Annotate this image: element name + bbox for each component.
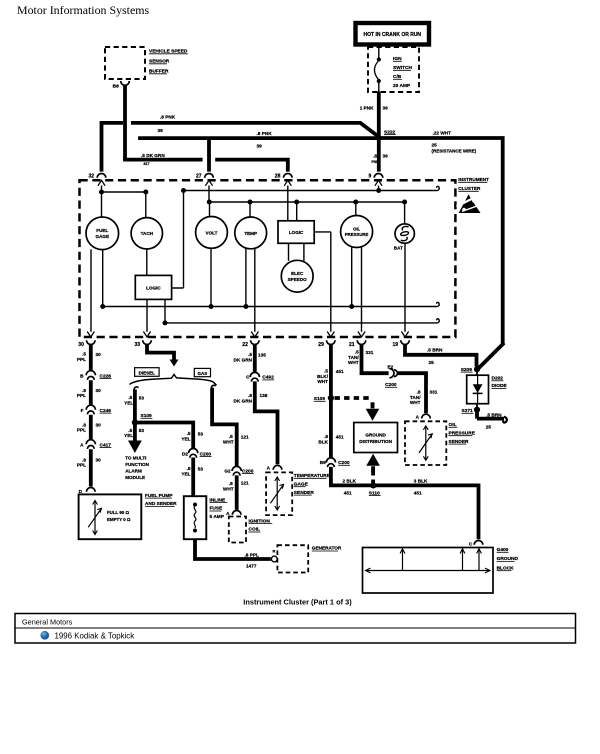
svg-text:39: 39 <box>158 128 164 133</box>
svg-text:PPL: PPL <box>77 463 86 468</box>
svg-text:25: 25 <box>429 360 435 365</box>
label .5 DK GRN 817 <box>141 153 165 166</box>
wire .8 TAN/WHT E2 to oil sender <box>398 371 426 413</box>
svg-text:BAT: BAT <box>394 245 403 250</box>
label .8 PNK 39 middle <box>257 131 273 149</box>
svg-text:WHT: WHT <box>223 486 234 491</box>
svg-text:.8: .8 <box>373 154 377 159</box>
pin 9 of instrument cluster <box>369 174 383 186</box>
wire node A to logic 2 right side <box>172 191 184 289</box>
label 2 BLK 451 <box>343 478 357 495</box>
connector C228 pin B <box>80 371 111 380</box>
pin D of fuel pump sender <box>79 488 95 494</box>
svg-text:1 PNK: 1 PNK <box>360 106 374 111</box>
label INLINE FUSE 5 AMP <box>210 497 228 520</box>
label .8 YEL 53 fuse <box>181 466 203 476</box>
svg-text:CLUSTER: CLUSTER <box>458 186 481 191</box>
resistor oil pressure sender element <box>419 426 432 461</box>
ground block G400 <box>363 548 494 594</box>
svg-text:F: F <box>81 408 84 413</box>
label TEMPERATURE GAGE SENDER <box>294 473 331 496</box>
svg-text:121: 121 <box>241 434 249 439</box>
svg-text:C: C <box>469 541 473 546</box>
svg-text:ALARM: ALARM <box>125 468 142 473</box>
svg-text:GAGE: GAGE <box>96 234 110 239</box>
wire .22 WHT resistance wire to right bus <box>379 136 504 368</box>
svg-text:32: 32 <box>89 174 95 180</box>
label .8 PPL 30 first <box>77 388 101 398</box>
connector C200 pin D2 <box>182 449 212 458</box>
wire fuel gage to node line C <box>102 250 104 307</box>
indicator BAT <box>394 224 415 250</box>
svg-text:TEMP: TEMP <box>244 231 257 236</box>
HOT IN CRANK OR RUN box <box>356 23 430 45</box>
splice S109 diesel <box>132 413 153 426</box>
svg-text:.8: .8 <box>187 466 191 471</box>
svg-text:3 BLK: 3 BLK <box>414 478 428 483</box>
svg-text:29: 29 <box>318 342 324 348</box>
svg-text:20 AMP: 20 AMP <box>393 83 411 89</box>
svg-text:53: 53 <box>139 395 145 400</box>
wire .8 WHT G2 to ignition coil <box>235 475 239 509</box>
svg-text:PPL: PPL <box>77 428 86 433</box>
wire pin 28 to logic 1 <box>287 186 289 221</box>
instrument cluster box <box>80 180 456 337</box>
svg-text:817: 817 <box>144 162 150 166</box>
label .5 YEL 53 lower <box>124 428 144 438</box>
svg-text:25: 25 <box>486 424 492 429</box>
pin 27 of instrument cluster <box>196 174 213 186</box>
inline fuse box <box>184 496 207 539</box>
svg-text:OIL: OIL <box>353 226 361 231</box>
GAS tag box <box>194 368 210 376</box>
svg-text:Instrument Cluster (Part 1 of: Instrument Cluster (Part 1 of 3) <box>243 598 352 607</box>
ignition coil dashed box <box>229 517 272 543</box>
application split brace <box>130 374 217 385</box>
svg-text:PRESSURE: PRESSURE <box>345 232 369 237</box>
svg-text:22: 22 <box>242 342 248 348</box>
svg-text:451: 451 <box>414 490 422 495</box>
svg-text:30: 30 <box>78 342 84 348</box>
svg-text:D2: D2 <box>182 451 188 456</box>
arrow to multi function alarm module <box>125 441 149 480</box>
generator dashed box <box>277 545 342 572</box>
wire crossbar to tach <box>145 192 147 218</box>
wire .5 BLK/WHT pin 29 to S109 <box>329 344 333 398</box>
svg-text:331: 331 <box>430 389 438 394</box>
svg-text:1477: 1477 <box>246 563 257 568</box>
wire .8 BLK S109 to B9 <box>329 398 333 457</box>
label .8 PPL 30 third <box>77 457 101 467</box>
connector C417 pin A <box>80 440 111 449</box>
wire pin 27 to volt gage <box>208 186 211 217</box>
dashed link S109 to ground distribution <box>335 396 372 400</box>
svg-text:138: 138 <box>260 393 268 398</box>
svg-text:YEL: YEL <box>181 436 190 441</box>
svg-text:LOGIC: LOGIC <box>146 286 161 291</box>
svg-text:DISTRIBUTION: DISTRIBUTION <box>359 439 392 444</box>
wire logic 2 to node line D <box>163 299 168 325</box>
wire fuel gage to pin 30 <box>90 249 92 331</box>
pin A of oil pressure sender <box>416 414 431 419</box>
terminal R at generator <box>271 549 277 562</box>
resistor fuel level sender element <box>88 501 101 535</box>
svg-text:.8: .8 <box>417 390 421 395</box>
wire .8 DK GRN C492 to temp sender <box>253 381 278 464</box>
caption Instrument Cluster Part 1 of 3 <box>243 598 352 607</box>
svg-text:.5: .5 <box>187 431 191 436</box>
svg-text:2 BLK: 2 BLK <box>343 478 357 483</box>
wire B8 vertical to DK GRN corner <box>123 85 127 159</box>
application table <box>15 614 576 644</box>
svg-text:TAN/: TAN/ <box>348 355 359 360</box>
svg-text:(RESISTANCE WIRE): (RESISTANCE WIRE) <box>432 148 477 153</box>
label .8 BLK 451 <box>318 434 344 444</box>
svg-text:30: 30 <box>96 458 102 463</box>
label OIL PRESSURE SENDER <box>449 422 476 445</box>
svg-text:53: 53 <box>139 428 145 433</box>
splice S222 <box>376 129 396 141</box>
wire .8 PNK feed to pin 27 <box>138 138 377 172</box>
ign switch contacts and blade <box>374 57 380 83</box>
svg-text:30: 30 <box>96 388 102 393</box>
op-amp LOGIC 2 box <box>135 275 171 299</box>
svg-text:30: 30 <box>96 352 102 357</box>
label .5 WHT 121 <box>223 434 249 444</box>
node crossbar fuel-tach <box>99 190 148 195</box>
svg-text:.5 BRN: .5 BRN <box>427 347 443 352</box>
wire bat to pin 19 <box>404 243 406 331</box>
ESD warning symbol <box>457 194 481 213</box>
svg-text:TO MULTI: TO MULTI <box>125 455 146 460</box>
svg-text:WHT: WHT <box>317 379 328 384</box>
node line B gauge feed <box>207 200 407 205</box>
wire .8 PPL fuse to generator <box>193 539 271 559</box>
gauge TEMP <box>235 217 267 249</box>
label .5 PPL 30 <box>77 352 101 362</box>
wire tach to logic 2 <box>146 249 148 275</box>
wire .5 YEL diesel branch to S109 <box>134 387 138 422</box>
svg-text:.8 PNK: .8 PNK <box>257 131 273 136</box>
temperature gage sender box <box>266 472 292 515</box>
svg-text:.5 BRN: .5 BRN <box>486 412 502 417</box>
label G400 GROUND BLOCK <box>497 547 519 571</box>
pin 32 of instrument cluster <box>89 174 106 186</box>
svg-text:.8: .8 <box>82 388 86 393</box>
pin 30 of instrument cluster <box>78 332 95 348</box>
pin C of ground block <box>469 541 483 547</box>
wire .5 PPL pin 30 to fuel pump sender <box>89 344 93 486</box>
wire S109 to connector D2 <box>135 421 193 449</box>
svg-text:19: 19 <box>393 342 399 348</box>
svg-text:39: 39 <box>383 154 389 159</box>
arrow out of ground distribution <box>366 454 380 473</box>
bullet 1996 Kodiak and Topkick <box>41 631 135 640</box>
svg-text:28: 28 <box>275 174 281 180</box>
gauge VOLT <box>196 217 228 249</box>
pin A of temperature gage sender <box>267 465 282 470</box>
label .8 TAN/WHT 331 <box>410 389 438 405</box>
connector C200 pin E2 <box>385 364 397 388</box>
svg-text:25: 25 <box>432 142 438 147</box>
svg-text:30: 30 <box>96 423 102 428</box>
svg-text:TAN/: TAN/ <box>410 395 421 400</box>
pin 19 of instrument cluster <box>393 332 410 348</box>
svg-text:GENERATOR: GENERATOR <box>312 546 342 551</box>
wire node B to temp gage <box>249 202 251 217</box>
svg-text:.5: .5 <box>128 428 132 433</box>
vehicle speed sensor buffer box <box>105 47 188 79</box>
svg-text:WHT: WHT <box>410 400 421 405</box>
label .8 WHT 121 <box>223 480 249 491</box>
pin 29 of instrument cluster <box>318 332 335 348</box>
svg-text:WHT: WHT <box>223 439 234 444</box>
pin B8 of vehicle speed sensor buffer <box>113 81 130 90</box>
svg-text:INSTRUMENT: INSTRUMENT <box>458 177 489 182</box>
label .5 BRN 25 lower <box>486 412 502 429</box>
wire S209 to diode <box>476 369 478 375</box>
ign switch C/B dashed box <box>368 47 419 92</box>
svg-text:331: 331 <box>366 350 374 355</box>
wire pin 33 to application split <box>145 344 178 366</box>
svg-text:GROUND: GROUND <box>365 432 386 437</box>
splice S271 <box>462 404 481 414</box>
ground block internal bus and taps <box>366 549 491 573</box>
svg-text:.8: .8 <box>324 434 328 439</box>
svg-text:TACH: TACH <box>141 231 154 236</box>
ground distribution box <box>354 423 398 453</box>
svg-text:HOT IN CRANK OR RUN: HOT IN CRANK OR RUN <box>364 32 422 38</box>
svg-text:39: 39 <box>257 144 263 149</box>
pin 22 of instrument cluster <box>242 332 259 348</box>
label .8 PPL 30 second <box>77 422 101 432</box>
label .5 YEL 53 to D2 <box>181 431 203 441</box>
svg-text:.8: .8 <box>248 393 252 398</box>
title Motor Information Systems <box>17 3 149 17</box>
splice S110 <box>369 482 381 496</box>
svg-text:R: R <box>273 549 276 554</box>
fuel pump and sender box <box>79 494 142 539</box>
svg-text:9: 9 <box>369 174 372 180</box>
wire node B to oil pressure gage <box>355 202 357 216</box>
gauge FUEL GAGE <box>86 217 119 250</box>
svg-text:DIESEL: DIESEL <box>139 370 156 375</box>
svg-text:451: 451 <box>336 369 344 374</box>
label .22 WHT 25 RESISTANCE WIRE <box>432 130 477 153</box>
svg-text:121: 121 <box>241 480 249 485</box>
svg-text:.5: .5 <box>355 350 359 355</box>
wire .5 BRN pin 19 to S209 <box>403 344 476 366</box>
svg-text:VOLT: VOLT <box>206 230 218 235</box>
svg-text:451: 451 <box>336 434 344 439</box>
wire logic 1 to elec speedo <box>289 243 304 261</box>
svg-text:PPL: PPL <box>77 357 86 362</box>
svg-text:.8 PNK: .8 PNK <box>160 115 176 120</box>
svg-text:.8: .8 <box>229 481 233 486</box>
connector C492 pin C <box>246 372 274 381</box>
wire pin 9 into node line A <box>376 186 381 194</box>
label .8 PNK 39 left <box>158 115 176 133</box>
node line C gauge return <box>100 302 439 309</box>
wire switch to S222 <box>378 81 380 138</box>
wire .8 YEL D2 to inline fuse <box>191 458 195 497</box>
wire .8 PNK feed to pin 32 <box>100 123 380 172</box>
diode D202 <box>467 375 508 404</box>
splice S209 <box>461 366 480 373</box>
label .8 PNK 39 below S222 <box>371 154 388 164</box>
svg-text:.5: .5 <box>128 395 132 400</box>
svg-text:53: 53 <box>198 466 204 471</box>
resistor temperature sender element <box>270 477 283 510</box>
label 3 BLK 451 <box>414 478 428 495</box>
svg-text:BLK: BLK <box>318 439 328 444</box>
gauge ELEC SPEEDO <box>281 260 313 292</box>
svg-text:1996 Kodiak & Topkick: 1996 Kodiak & Topkick <box>55 631 135 640</box>
svg-text:YEL: YEL <box>124 401 133 406</box>
svg-text:53: 53 <box>198 431 204 436</box>
connector C200 pin G2 <box>224 466 253 475</box>
gauge OIL PRESSURE <box>341 216 373 248</box>
fuse element 5 amp <box>193 503 197 533</box>
wire .5 BRN S271 onward <box>477 410 507 423</box>
wire node B to bat indicator <box>404 202 406 224</box>
wire .5 DK GRN pin 22 to C492 <box>253 344 257 372</box>
svg-text:33: 33 <box>135 342 141 348</box>
svg-text:.5: .5 <box>248 352 252 357</box>
wire 2 BLK 3 BLK ground bus <box>329 467 479 539</box>
svg-text:General Motors: General Motors <box>22 617 73 626</box>
svg-text:135: 135 <box>258 352 266 357</box>
svg-text:G2: G2 <box>224 468 231 473</box>
wire oil pressure to pin 21 <box>361 247 363 331</box>
svg-text:FUEL: FUEL <box>96 228 108 233</box>
svg-text:YEL: YEL <box>181 471 190 476</box>
node line D <box>165 319 439 323</box>
wire .5 DK GRN horizontal run to pin 28 <box>123 158 288 172</box>
arrow into ground distribution <box>366 402 380 421</box>
svg-text:PNK: PNK <box>371 160 379 164</box>
svg-text:B8: B8 <box>113 84 119 90</box>
wire gas branch to G2 <box>210 385 237 466</box>
svg-text:.5: .5 <box>324 369 328 374</box>
wire temp to pin 22 <box>254 248 256 332</box>
svg-text:.5 DK GRN: .5 DK GRN <box>141 153 165 158</box>
svg-text:MODULE: MODULE <box>125 475 145 480</box>
oil pressure sender box <box>405 421 446 465</box>
wire logic 1 to pin 29 <box>314 232 331 332</box>
svg-text:27: 27 <box>196 174 202 180</box>
wire logic 2 to pin 33 <box>146 299 148 331</box>
svg-text:.5: .5 <box>82 352 86 357</box>
wire HOT box to switch contact <box>378 45 380 59</box>
svg-text:.22 WHT: .22 WHT <box>433 130 452 135</box>
dashed link ground distribution to S110 <box>371 471 375 484</box>
connector C200 pin B9 <box>320 458 350 467</box>
svg-text:21: 21 <box>349 342 355 348</box>
DIESEL tag box <box>135 368 160 377</box>
svg-text:PPL: PPL <box>77 393 86 398</box>
wire node B to logic 1 <box>296 202 298 221</box>
svg-text:YEL: YEL <box>124 433 133 438</box>
wire volt to node C <box>210 248 212 306</box>
node line A resistance feed <box>181 186 439 193</box>
label .8 DK GRN 138 <box>234 393 268 404</box>
label INSTRUMENT CLUSTER <box>458 177 489 191</box>
splice S109 ground <box>314 395 334 402</box>
svg-text:DK GRN: DK GRN <box>234 398 253 403</box>
label .5 DK GRN 135 <box>234 352 267 362</box>
svg-text:WHT: WHT <box>348 360 359 365</box>
wire .5 YEL S109 to alarm module arrow <box>133 423 137 441</box>
op-amp LOGIC 1 box <box>278 221 314 244</box>
wire temp to node C <box>245 248 247 306</box>
pin 28 of instrument cluster <box>275 174 292 186</box>
pin A of ignition coil <box>226 511 241 517</box>
wire oil pressure to node C <box>351 247 353 306</box>
svg-text:EMPTY 0 Ω: EMPTY 0 Ω <box>107 517 131 522</box>
svg-text:LOGIC: LOGIC <box>289 230 304 235</box>
svg-text:FULL 90 Ω: FULL 90 Ω <box>107 510 129 515</box>
svg-text:Motor Information Systems: Motor Information Systems <box>17 3 149 17</box>
wire pin 32 to fuel gage <box>101 186 103 218</box>
label FUEL PUMP AND SENDER <box>145 493 177 507</box>
label .8 PPL 1477 <box>245 552 259 568</box>
label .5 YEL 53 upper <box>124 395 144 406</box>
gauge TACH <box>131 218 162 249</box>
wire .5 TAN/WHT pin 21 to E2 <box>360 344 389 373</box>
svg-text:GAS: GAS <box>198 371 208 376</box>
svg-text:5 AMP: 5 AMP <box>210 514 225 520</box>
connector C246 pin F <box>81 405 112 414</box>
svg-text:BLK/: BLK/ <box>317 374 329 379</box>
svg-text:.5: .5 <box>229 434 233 439</box>
svg-text:.8 PPL: .8 PPL <box>245 552 259 557</box>
pin 33 of instrument cluster <box>135 332 152 348</box>
label .5 BRN 25 upper <box>427 347 443 365</box>
svg-text:.8: .8 <box>82 457 86 462</box>
label 1 PNK 39 <box>360 106 388 111</box>
svg-text:.8: .8 <box>82 422 86 427</box>
wire .8 PNK S222 to pin 9 <box>377 138 381 172</box>
svg-text:B9: B9 <box>320 460 326 465</box>
label .5 BLK/WHT 451 upper <box>317 369 344 385</box>
svg-text:39: 39 <box>383 106 389 111</box>
svg-text:ELEC: ELEC <box>291 271 304 276</box>
svg-text:451: 451 <box>344 490 352 495</box>
svg-text:FUNCTION: FUNCTION <box>125 462 149 467</box>
label .5 TAN/WHT 331 <box>348 350 374 366</box>
svg-text:SPEEDO: SPEEDO <box>288 277 308 282</box>
pin 21 of instrument cluster <box>349 332 366 348</box>
svg-text:DK GRN: DK GRN <box>234 357 253 362</box>
